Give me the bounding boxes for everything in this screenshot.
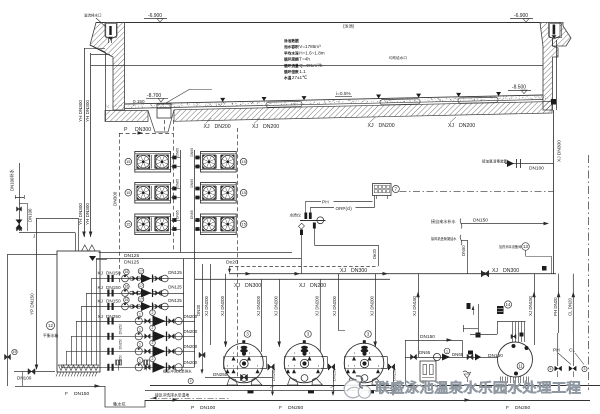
svg-text:DN200: DN200 [184,360,198,365]
svg-text:14: 14 [506,302,511,307]
svg-text:PH DN20: PH DN20 [553,297,558,316]
svg-text:水温: 水温 [283,75,292,80]
svg-text:DN125: DN125 [124,260,140,266]
svg-text:循环周期: 循环周期 [283,57,299,62]
svg-text:DN250: DN250 [119,339,123,350]
svg-text:15: 15 [126,159,131,164]
svg-text:XJ: XJ [98,314,103,319]
svg-text:联盛泳池温泉水乐园水处理工程: 联盛泳池温泉水乐园水处理工程 [375,380,581,396]
svg-text:DN200: DN200 [379,123,395,129]
svg-text:XJ: XJ [234,283,240,289]
svg-text:接自来水补水: 接自来水补水 [431,218,456,224]
svg-text:De20: De20 [226,260,238,266]
svg-text:DN250: DN250 [106,314,121,319]
svg-text:XJ: XJ [492,268,498,274]
svg-text:DN65: DN65 [190,179,194,188]
svg-text:池水容积: 池水容积 [284,44,299,49]
svg-text:15: 15 [241,190,246,195]
svg-text:1: 1 [139,343,141,347]
svg-text:15: 15 [241,159,246,164]
svg-text:17: 17 [139,284,143,288]
svg-text:集水坑: 集水坑 [113,401,126,408]
svg-text:DN100: DN100 [200,405,216,411]
svg-text:水质仪: 水质仪 [290,213,302,218]
svg-text:DN250: DN250 [213,372,228,377]
svg-text:2: 2 [152,326,154,330]
svg-text:16: 16 [124,298,128,302]
svg-text:19: 19 [13,350,17,354]
svg-text:DN100: DN100 [529,166,544,172]
svg-text:PH: PH [553,348,560,354]
svg-text:XJ DN200: XJ DN200 [332,295,337,316]
svg-text:XJ DN200: XJ DN200 [369,295,374,316]
svg-text:27±1℃: 27±1℃ [292,75,308,80]
svg-text:15: 15 [126,190,131,195]
svg-text:13: 13 [523,244,528,249]
svg-text:DN300: DN300 [135,127,151,133]
svg-text:接反冲洗水泵排水: 接反冲洗水泵排水 [163,369,192,374]
svg-text:DN65: DN65 [419,350,431,355]
svg-text:平均水深: 平均水深 [284,50,299,55]
svg-text:DN100补水: DN100补水 [9,168,16,191]
svg-text:DN200: DN200 [184,344,198,349]
svg-text:16: 16 [124,285,128,289]
svg-text:泳池数据: 泳池数据 [284,38,299,43]
svg-text:-6.900: -6.900 [514,13,528,19]
svg-text:YH DN300: YH DN300 [85,203,90,225]
svg-text:加药消毒设备间: 加药消毒设备间 [499,244,521,249]
svg-text:XJ: XJ [340,268,346,274]
svg-text:DN250: DN250 [332,368,337,381]
svg-text:XJ DN200: XJ DN200 [256,295,261,316]
svg-text:P: P [124,127,128,133]
svg-text:DN150: DN150 [106,298,121,303]
svg-text:DN300: DN300 [351,268,367,274]
svg-text:YP DN150: YP DN150 [30,293,35,315]
svg-text:15: 15 [241,222,246,227]
svg-text:DN300: DN300 [113,191,118,206]
svg-text:DN65: DN65 [176,179,180,188]
svg-text:DN125: DN125 [168,270,182,275]
svg-text:YH DN300: YH DN300 [85,100,90,122]
svg-text:2: 2 [152,341,154,345]
svg-text:DN150: DN150 [106,285,121,290]
svg-text:-8.500: -8.500 [512,85,526,91]
svg-text:1: 1 [139,359,141,363]
svg-text:F: F [279,405,282,411]
svg-text:DN125: DN125 [168,284,182,289]
svg-text:De20: De20 [372,248,377,259]
svg-text:XJ DN300: XJ DN300 [557,140,563,162]
svg-text:DN300: DN300 [503,268,519,274]
svg-text:DN200: DN200 [263,124,279,130]
svg-text:XJ DN200: XJ DN200 [273,295,278,316]
svg-text:DN250: DN250 [288,405,304,411]
svg-text:P: P [191,405,194,411]
svg-text:DN100: DN100 [17,376,32,381]
svg-text:F: F [65,391,68,397]
svg-text:11: 11 [518,364,523,369]
svg-text:DN300: DN300 [245,283,261,289]
svg-text:T=4h: T=4h [299,57,310,62]
svg-text:DN250: DN250 [119,324,123,335]
svg-text:XJ DN200: XJ DN200 [315,295,320,316]
svg-text:(泳池): (泳池) [343,23,355,30]
svg-text:DN20: DN20 [196,304,201,316]
svg-text:CL DN20: CL DN20 [568,298,573,316]
svg-text:循环倍数: 循环倍数 [283,69,299,74]
svg-text:KJ: KJ [98,298,103,303]
svg-text:DN250: DN250 [515,405,531,411]
svg-text:平衡水箱: 平衡水箱 [43,333,58,338]
svg-text:V=1785m³: V=1785m³ [299,44,321,49]
svg-text:XJ DN150: XJ DN150 [412,295,417,316]
svg-text:XJ DN200: XJ DN200 [204,295,209,316]
svg-text:J: J [33,234,35,239]
svg-text:DN65: DN65 [176,210,180,219]
svg-text:2: 2 [152,311,154,315]
svg-text:YH DN300: YH DN300 [78,100,83,122]
svg-text:XJ: XJ [448,123,454,129]
svg-text:12: 12 [48,323,53,328]
svg-text:DN150: DN150 [106,270,121,275]
svg-text:F: F [506,405,509,411]
svg-text:DN65: DN65 [190,210,194,219]
svg-text:2: 2 [152,357,154,361]
svg-text:接反冲洗排水至湿地: 接反冲洗排水至湿地 [155,393,189,398]
svg-text:16: 16 [124,270,128,274]
svg-text:DN100: DN100 [28,208,33,222]
svg-text:DN200: DN200 [215,124,231,130]
svg-text:CL: CL [569,348,575,354]
svg-text:XJ: XJ [252,124,258,130]
svg-text:5: 5 [550,367,552,371]
svg-text:DN150: DN150 [420,334,435,340]
svg-text:-6.900: -6.900 [148,13,162,19]
svg-text:PH: PH [322,200,329,206]
svg-text:DN50: DN50 [461,245,466,256]
svg-text:3: 3 [584,367,586,371]
svg-text:H=1.6~1.8m: H=1.6~1.8m [299,50,324,55]
svg-text:DN200: DN200 [184,329,198,334]
svg-text:17: 17 [139,297,143,301]
svg-text:DN250: DN250 [392,368,397,381]
svg-text:ORP(cl): ORP(cl) [336,206,353,211]
svg-text:4: 4 [190,379,192,383]
svg-text:均布给水口: 均布给水口 [389,55,407,60]
svg-text:DN150: DN150 [74,391,90,397]
svg-text:DN125: DN125 [124,253,140,259]
svg-text:DN250: DN250 [271,368,276,381]
svg-text:XJ DN150: XJ DN150 [528,295,533,316]
svg-text:1.1: 1.1 [299,69,306,74]
svg-text:溢流排水口: 溢流排水口 [84,13,102,18]
svg-text:DN65: DN65 [176,148,180,157]
svg-text:KJ: KJ [98,285,103,290]
svg-text:DN200: DN200 [310,283,326,289]
svg-text:XJ: XJ [204,124,210,130]
svg-text:DN65: DN65 [190,148,194,157]
svg-text:DN150: DN150 [473,218,488,224]
svg-text:17: 17 [139,269,143,273]
svg-text:15: 15 [126,222,131,227]
svg-text:DN65: DN65 [452,352,464,357]
svg-text:循环流量: 循环流量 [283,63,299,68]
svg-text:DN125: DN125 [168,298,182,303]
svg-text:XJ: XJ [299,283,305,289]
svg-text:接加氯消毒装置: 接加氯消毒装置 [482,159,508,164]
svg-text:1: 1 [139,312,141,316]
svg-text:1: 1 [139,328,141,332]
svg-text:1: 1 [446,349,448,353]
svg-text:Q=491m³/h: Q=491m³/h [299,63,323,68]
svg-text:DN200: DN200 [459,123,475,129]
svg-text:接风机盘管凝结水: 接风机盘管凝结水 [431,236,457,241]
svg-text:KJ: KJ [98,270,103,275]
svg-text:DN150: DN150 [488,353,503,359]
svg-text:XJ DN200: XJ DN200 [220,295,225,316]
svg-text:XJ: XJ [368,123,374,129]
